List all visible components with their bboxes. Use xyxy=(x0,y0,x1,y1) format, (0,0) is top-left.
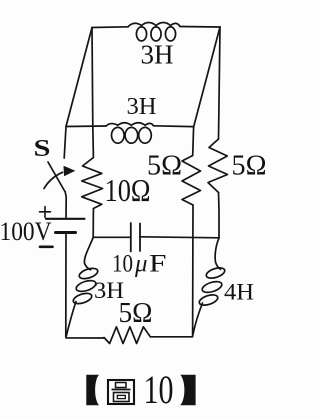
wire slant B to D xyxy=(194,27,220,127)
caption character tu (figure) xyxy=(108,380,134,404)
battery 100V long plate xyxy=(46,218,85,220)
resistor 5 ohm (middle) zigzag xyxy=(182,156,201,206)
wire 10-ohm resistor down to capacitor junction xyxy=(92,209,94,238)
caption right bracket xyxy=(180,375,195,405)
wire capacitor right segment xyxy=(140,237,219,238)
inductor 3H (top), coil loops xyxy=(128,23,180,41)
label 10uF xyxy=(112,251,167,278)
svg-text:3H: 3H xyxy=(141,40,174,70)
wire D down to middle 5-ohm resistor xyxy=(192,127,195,156)
wire slant A to C xyxy=(66,28,92,127)
inductor 4H coil xyxy=(198,266,226,307)
svg-text:F: F xyxy=(149,251,167,278)
wire capacitor left segment xyxy=(93,236,131,238)
switch S blade xyxy=(48,162,65,192)
wire 3H coil to corner E xyxy=(66,302,76,337)
svg-text:μ: μ xyxy=(134,251,147,278)
svg-text:10: 10 xyxy=(144,367,174,412)
wire 4H coil to corner F xyxy=(193,303,203,335)
svg-text:4H: 4H xyxy=(224,280,254,305)
svg-text:5Ω: 5Ω xyxy=(147,151,182,182)
wire battery bottom plate down to corner E xyxy=(65,233,67,337)
wire bottom right segment resistor to F xyxy=(150,336,192,338)
svg-text:10Ω: 10Ω xyxy=(105,172,151,208)
svg-text:S: S xyxy=(34,136,51,162)
svg-text:10: 10 xyxy=(112,251,133,278)
caption left bracket xyxy=(86,375,99,405)
wire top horizontal A-B xyxy=(92,27,220,28)
svg-text:5Ω: 5Ω xyxy=(232,151,267,182)
wire C down to switch fixed contact xyxy=(64,127,66,159)
wire second horizontal C-D xyxy=(66,125,193,128)
switch S arrowhead xyxy=(64,166,76,177)
switch S closing arrow arc xyxy=(44,172,63,188)
capacitor 10uF plates xyxy=(131,223,140,252)
svg-text:100V: 100V xyxy=(0,217,52,246)
battery 100V short plate xyxy=(56,231,76,234)
svg-text:3H: 3H xyxy=(127,94,157,120)
wire junction down into 3H coil (bottom left) xyxy=(84,237,93,269)
resistor 10 ohm zigzag xyxy=(82,158,103,209)
wire inner-left vertical from A down to 10-ohm resistor xyxy=(92,28,93,158)
label + (battery positive) xyxy=(40,207,51,218)
inductor 3H (second), coil loops xyxy=(106,123,154,143)
label - (battery negative) xyxy=(40,246,53,249)
wire right vertical B down to right 5-ohm resistor xyxy=(219,27,221,139)
svg-text:5Ω: 5Ω xyxy=(119,298,153,329)
wire switch blade to battery top plate xyxy=(65,192,66,219)
wire right branch down to capacitor junction xyxy=(218,193,221,239)
wire middle branch down to corner F xyxy=(192,205,194,336)
wire bottom left segment E to resistor xyxy=(66,337,104,338)
inductor 3H (bottom left) coil xyxy=(72,266,99,305)
wire junction down into 4H coil xyxy=(215,238,220,269)
resistor 5 ohm (bottom) zigzag xyxy=(104,327,150,344)
resistor 5 ohm (right) zigzag xyxy=(208,139,228,193)
